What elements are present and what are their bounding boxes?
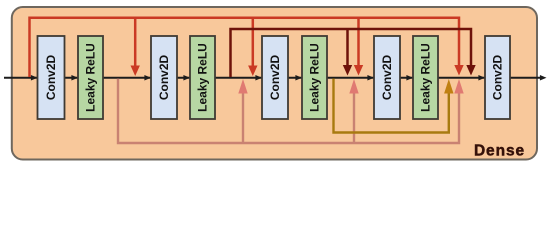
arrowhead main into lrelu1 bbox=[71, 75, 78, 81]
arrowhead main into conv2 bbox=[144, 75, 151, 81]
arrowhead maroon j3 bbox=[343, 65, 352, 76]
wire main data path bbox=[4, 77, 543, 79]
arrowhead pink j4 bbox=[454, 79, 463, 94]
arrowhead main into lrelu4 bbox=[406, 75, 413, 81]
arrowhead main into lrelu2 bbox=[183, 75, 190, 81]
layer box Leaky ReLU 3 bbox=[302, 36, 327, 119]
arrowhead red j4 bbox=[454, 65, 463, 76]
wire maroon drop j3 bbox=[346, 29, 349, 67]
wire pink rise j3 bbox=[353, 93, 355, 143]
arrowhead main into conv4 bbox=[367, 75, 374, 81]
svg-text:Conv2D: Conv2D bbox=[268, 54, 282, 100]
dense block panel bbox=[12, 7, 537, 160]
wire red drop j2 bbox=[252, 18, 255, 67]
arrowhead red j1 bbox=[131, 66, 140, 77]
svg-text:Conv2D: Conv2D bbox=[44, 54, 58, 100]
svg-text:Leaky ReLU: Leaky ReLU bbox=[84, 43, 98, 112]
arrowhead red j2 bbox=[248, 66, 257, 77]
layer box Conv2D 3 bbox=[262, 36, 288, 119]
wire pink rise j2 bbox=[242, 93, 244, 143]
layer box Leaky ReLU 1 bbox=[78, 36, 103, 119]
layer box Leaky ReLU 2 bbox=[190, 36, 215, 119]
arrowhead main into conv3 bbox=[255, 75, 262, 81]
svg-text:Leaky ReLU: Leaky ReLU bbox=[196, 43, 210, 112]
svg-text:Dense: Dense bbox=[474, 143, 525, 160]
arrowhead pink j3 bbox=[349, 79, 358, 94]
arrowhead main into lrelu3 bbox=[295, 75, 302, 81]
layer box Conv2D 1 bbox=[38, 36, 65, 119]
arrowhead pink j2 bbox=[238, 79, 247, 94]
layer box Conv2D 4 bbox=[374, 36, 400, 119]
arrowhead main into conv5 bbox=[478, 75, 485, 81]
svg-text:Conv2D: Conv2D bbox=[157, 54, 171, 100]
skip connection orange (layer3 out to layer 5) bbox=[334, 79, 449, 133]
svg-text:Conv2D: Conv2D bbox=[380, 54, 394, 100]
arrowhead main output bbox=[540, 75, 547, 81]
svg-text:Leaky ReLU: Leaky ReLU bbox=[308, 43, 322, 112]
arrowhead main into conv1 bbox=[31, 75, 38, 81]
svg-text:Conv2D: Conv2D bbox=[491, 54, 505, 100]
skip connection maroon (layer2 out to layers 4,5) bbox=[231, 29, 472, 77]
svg-text:Leaky ReLU: Leaky ReLU bbox=[419, 43, 433, 112]
wire red drop j3 bbox=[357, 18, 360, 67]
arrowhead maroon j4 bbox=[466, 65, 475, 76]
layer box Conv2D 2 bbox=[151, 36, 177, 119]
layer box Leaky ReLU 4 bbox=[413, 36, 438, 119]
skip connection red (input to layers 2,3,4,5) bbox=[30, 18, 460, 77]
skip connection pink (layer1 out to layers 3,4,5) bbox=[118, 79, 459, 144]
layer box Conv2D 5 bbox=[485, 36, 510, 119]
wire red drop j1 bbox=[134, 18, 137, 67]
arrowhead orange j4 bbox=[444, 79, 453, 94]
arrowhead red j3 bbox=[354, 65, 363, 76]
